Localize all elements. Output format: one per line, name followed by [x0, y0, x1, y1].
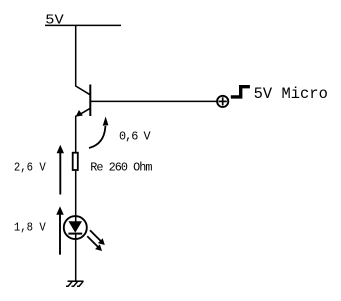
wire emitter to resistor [75, 116, 77, 153]
LED light arrow 2 [87, 236, 102, 251]
resistor Re [73, 153, 78, 170]
node base input circle-plus [217, 96, 228, 107]
svg-text:Re 260 Ohm: Re 260 Ohm [90, 160, 152, 174]
arrow 1,8V [56, 206, 63, 254]
svg-text:2,6 V: 2,6 V [14, 160, 47, 174]
svg-text:5V: 5V [45, 13, 64, 29]
curved arrow 0,6V [89, 117, 108, 149]
wire resistor to LED [75, 171, 77, 216]
wire collector from 5V rail [75, 26, 77, 87]
LED D1 [64, 216, 87, 239]
transistor Q1 [76, 85, 91, 117]
svg-text:0,6 V: 0,6 V [119, 130, 152, 144]
svg-text:5V Micro: 5V Micro [254, 85, 328, 103]
wire LED to ground [75, 239, 77, 281]
square wave symbol [231, 87, 250, 97]
LED light arrow 1 [90, 230, 105, 245]
arrow 2,6V [57, 145, 64, 195]
wire base to micro [90, 100, 217, 102]
wire 5V rail [45, 24, 121, 26]
ground [66, 281, 84, 286]
svg-text:1,8 V: 1,8 V [14, 220, 47, 234]
